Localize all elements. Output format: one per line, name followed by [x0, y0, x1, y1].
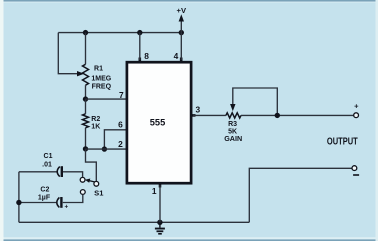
capacitor C2 — [57, 197, 60, 207]
switch S1 throw contact C1 — [80, 177, 85, 182]
output - terminal — [352, 166, 357, 171]
capacitor C1 — [57, 167, 60, 177]
output + terminal — [354, 113, 359, 118]
wire pin 8 — [139, 33, 141, 60]
node C2 junction — [16, 200, 21, 205]
wire R2 bottom to pin2 node — [85, 128, 87, 149]
svg-text:C2: C2 — [40, 187, 49, 194]
node R1 top junction — [83, 30, 88, 35]
+V supply arrow — [180, 20, 182, 33]
switch S1 blade — [89, 181, 96, 183]
wire C2 to S1 throw — [63, 195, 83, 203]
svg-text:3: 3 — [195, 104, 200, 114]
svg-text:1: 1 — [152, 186, 157, 196]
polarity - of output — [353, 174, 359, 176]
pin stub 4 — [180, 58, 183, 63]
wire pin 1 to ground — [159, 185, 161, 222]
wire C1 to S1 throw — [63, 172, 83, 178]
wire left bus to C1 — [19, 171, 57, 173]
wire bus to R1 top — [85, 33, 87, 65]
wire left bus to C2 — [19, 202, 56, 204]
resistor R2 — [83, 114, 89, 128]
svg-text:555: 555 — [150, 118, 166, 128]
wire bottom ground bus — [19, 221, 249, 223]
wire left vertical bus — [18, 172, 20, 223]
pin stub 3 — [191, 114, 196, 117]
svg-text:4: 4 — [174, 51, 179, 61]
op-amp/timer U1 555 body — [127, 62, 191, 183]
wire R1 wiper bracket — [58, 33, 78, 74]
node pin7 junction — [83, 96, 88, 101]
wire pin 3 to R3 — [193, 114, 226, 116]
node ground junction — [157, 220, 162, 225]
wire minus return — [249, 168, 352, 222]
wire pin 6 — [104, 130, 126, 149]
pin stub 8 — [139, 58, 142, 63]
switch S1 throw contact C2 — [80, 190, 85, 195]
svg-text:R1: R1 — [94, 65, 103, 72]
svg-text:7: 7 — [119, 90, 124, 100]
svg-text:2: 2 — [118, 139, 123, 149]
svg-text:R2: R2 — [91, 116, 100, 123]
wire pin 4 — [180, 33, 182, 60]
wire R1 bottom to pin7 node — [85, 85, 87, 99]
svg-text:OUTPUT: OUTPUT — [327, 136, 358, 147]
svg-text:6: 6 — [118, 120, 123, 130]
node pin8 junction — [137, 30, 142, 35]
resistor R1 (pot) — [83, 64, 89, 85]
node R3 bracket junction — [275, 113, 280, 118]
svg-text:.01: .01 — [42, 162, 52, 169]
svg-text:1MEG: 1MEG — [91, 76, 111, 83]
wire node to S1 pole — [86, 149, 97, 181]
wire pin 7 — [86, 98, 127, 100]
svg-text:+: + — [354, 102, 359, 111]
node pin6/pin2 junction — [102, 146, 107, 151]
ground symbol — [159, 222, 161, 227]
wire pin7 node to R2 — [85, 99, 87, 114]
svg-text:GAIN: GAIN — [224, 134, 242, 143]
svg-text:R3: R3 — [228, 121, 237, 128]
node pin4 / +V junction — [179, 30, 184, 35]
pin stub 1 — [159, 183, 162, 188]
resistor R3 (pot) — [226, 113, 241, 118]
svg-text:FREQ: FREQ — [92, 84, 112, 91]
switch S1 pole contact — [94, 181, 99, 186]
svg-text:+V: +V — [177, 6, 187, 15]
wire R3 wiper bracket — [233, 88, 277, 115]
node R2 / S1 junction — [83, 146, 88, 151]
svg-text:1K: 1K — [91, 124, 100, 131]
wire pin 2 — [86, 148, 127, 150]
svg-text:+: + — [64, 204, 68, 211]
svg-text:S1: S1 — [94, 188, 104, 197]
svg-text:C1: C1 — [44, 153, 53, 160]
svg-text:8: 8 — [144, 51, 149, 61]
wire R3 to output — [241, 114, 354, 116]
svg-text:1µF: 1µF — [38, 194, 51, 201]
wire top supply bus — [58, 32, 181, 34]
